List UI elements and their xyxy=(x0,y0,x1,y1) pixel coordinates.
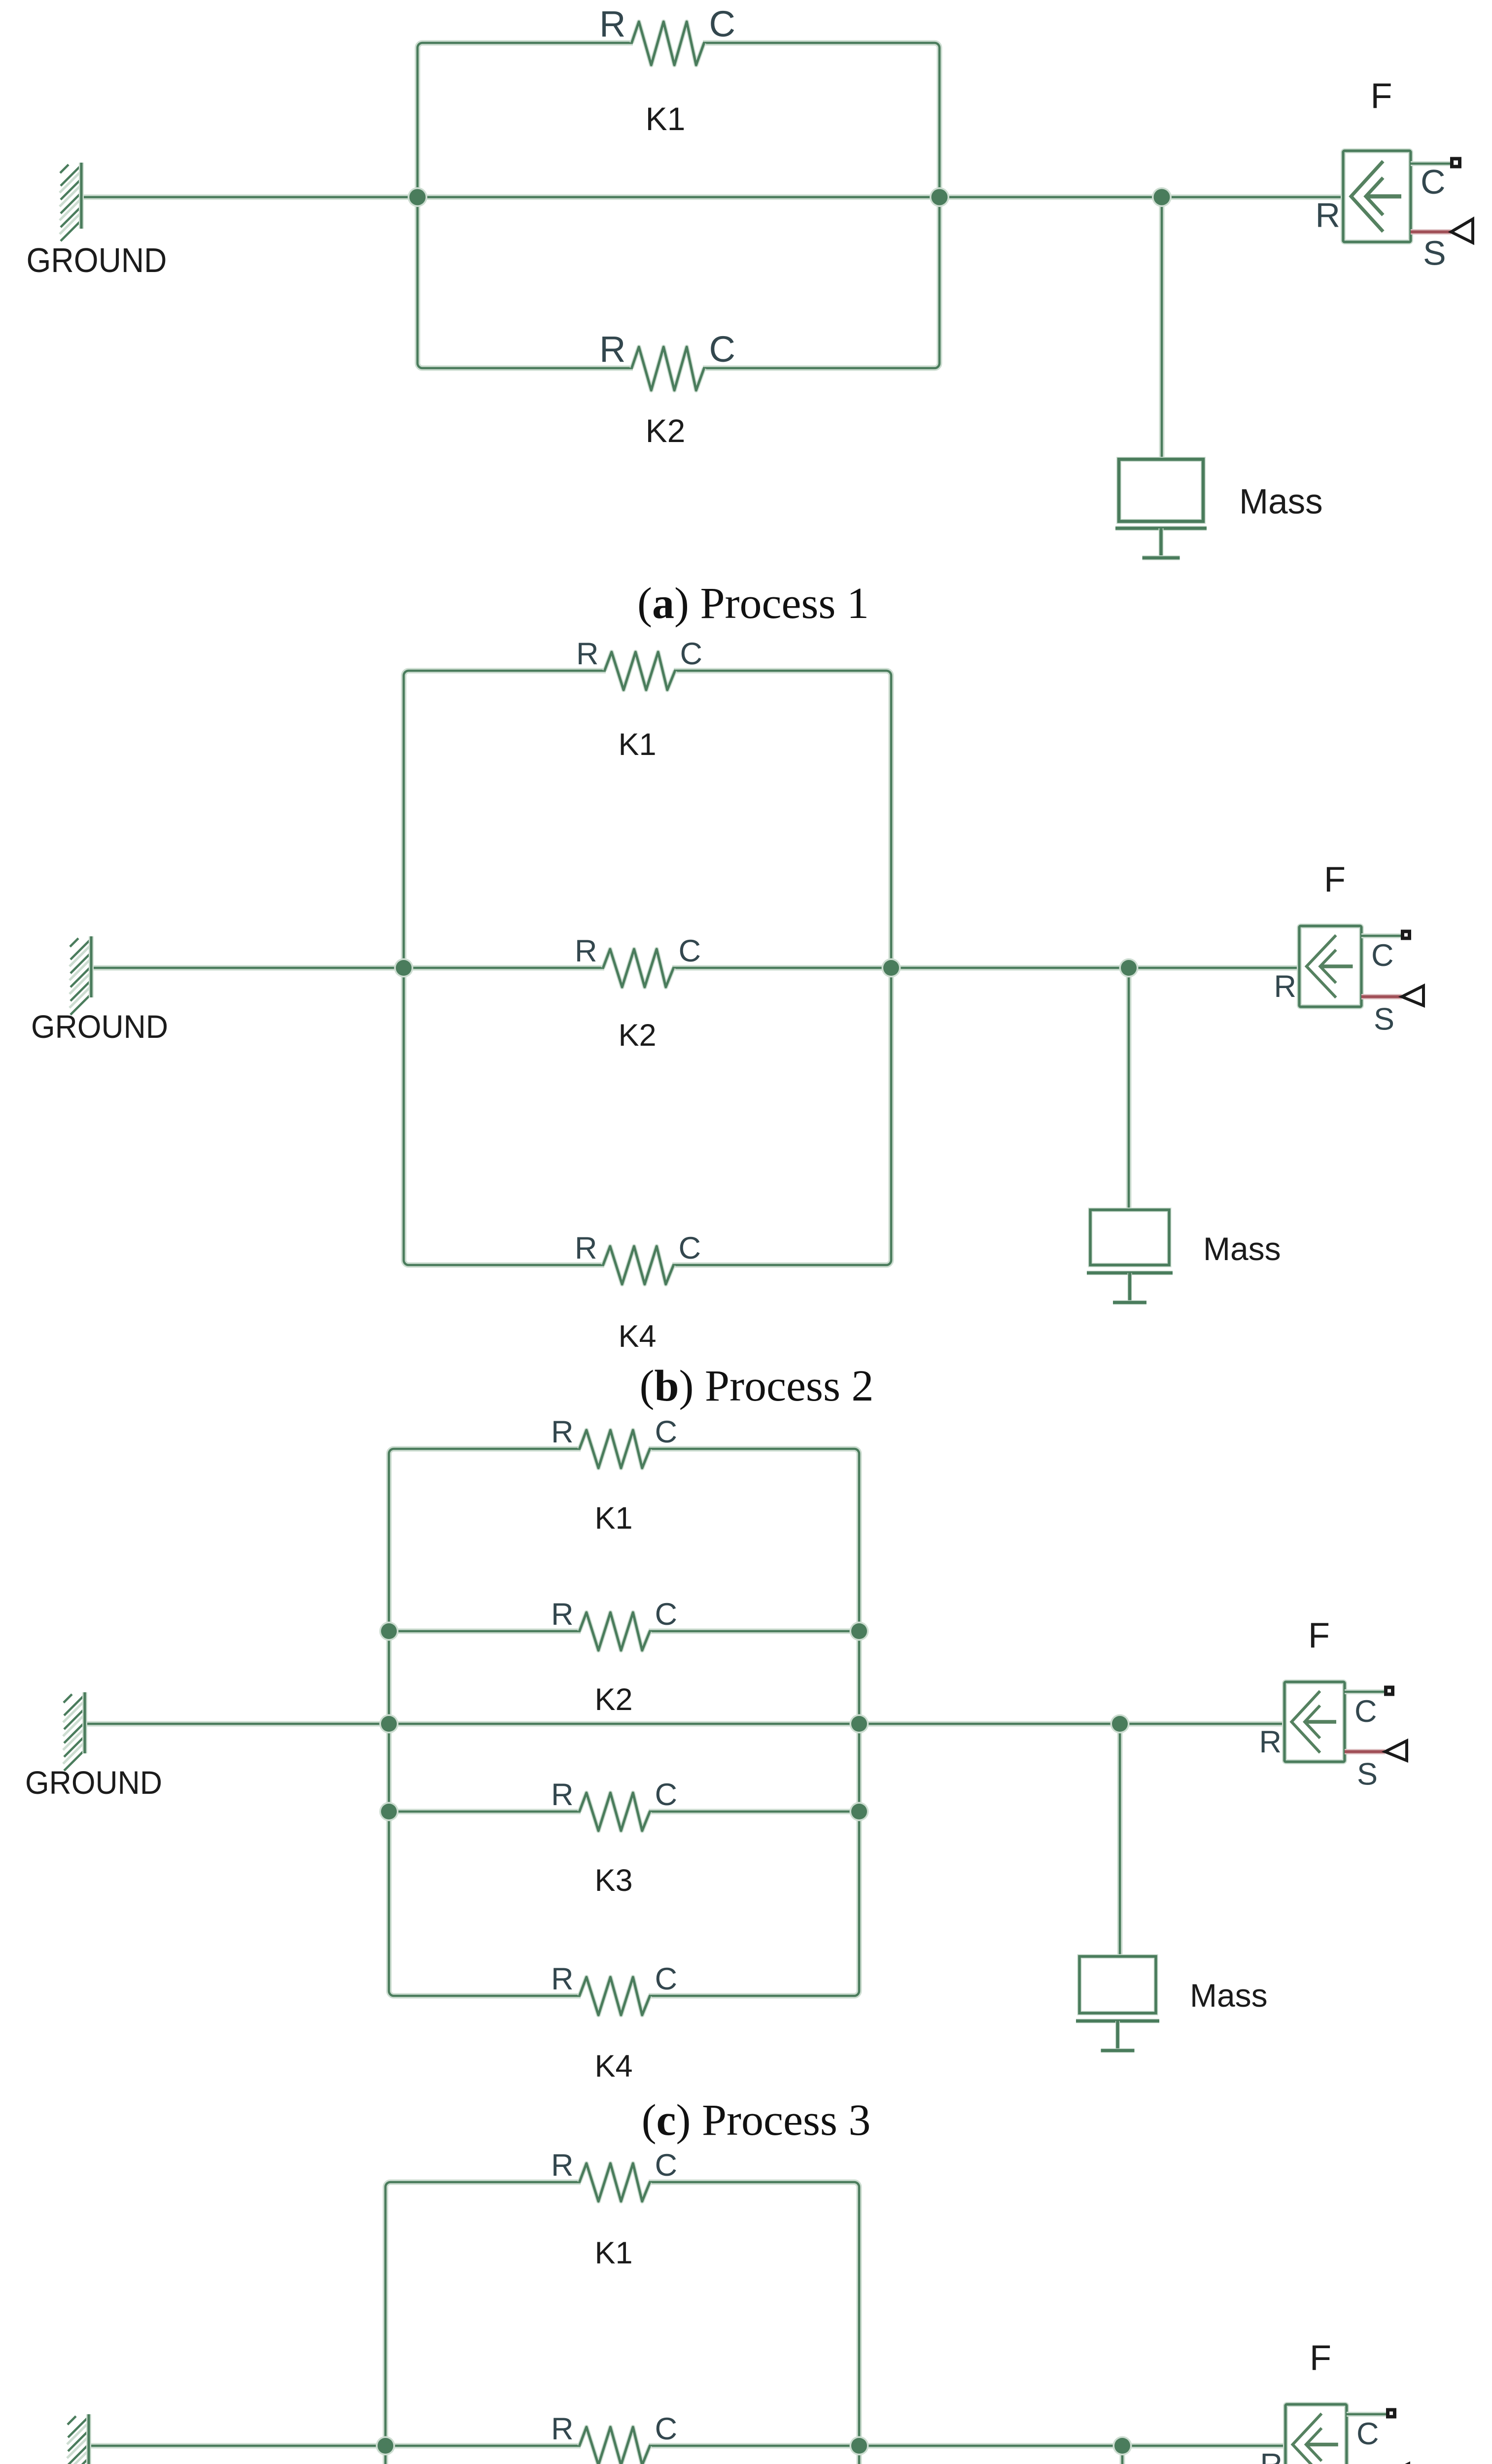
svg-text:R: R xyxy=(575,934,597,968)
svg-text:GROUND: GROUND xyxy=(25,1764,162,1801)
svg-text:C: C xyxy=(679,934,701,968)
svg-text:R: R xyxy=(551,1962,574,1996)
svg-text:(b) Process 2: (b) Process 2 xyxy=(640,1362,874,1410)
svg-text:C: C xyxy=(1354,1694,1377,1729)
svg-text:GROUND: GROUND xyxy=(31,1008,168,1045)
svg-text:(c) Process 3: (c) Process 3 xyxy=(642,2096,871,2145)
svg-text:R: R xyxy=(1315,196,1340,235)
svg-text:C: C xyxy=(1421,163,1446,201)
svg-text:R: R xyxy=(1260,2448,1283,2464)
svg-text:C: C xyxy=(655,1597,678,1632)
svg-text:C: C xyxy=(655,1962,678,1996)
svg-text:R: R xyxy=(551,1415,574,1449)
svg-text:F: F xyxy=(1308,1616,1330,1655)
svg-text:S: S xyxy=(1423,234,1446,273)
svg-text:F: F xyxy=(1310,2338,1331,2378)
svg-text:K1: K1 xyxy=(594,1501,632,1536)
svg-text:R: R xyxy=(551,2412,574,2446)
svg-text:K2: K2 xyxy=(646,412,686,449)
svg-text:K4: K4 xyxy=(618,1319,656,1354)
svg-text:R: R xyxy=(551,2148,574,2183)
svg-text:C: C xyxy=(655,1778,678,1812)
svg-text:K3: K3 xyxy=(594,1863,632,1898)
svg-text:Mass: Mass xyxy=(1239,482,1323,521)
svg-text:C: C xyxy=(709,3,735,44)
svg-text:Mass: Mass xyxy=(1190,1977,1268,2014)
svg-text:C: C xyxy=(1371,938,1394,973)
svg-text:C: C xyxy=(680,637,703,671)
svg-text:R: R xyxy=(599,3,625,44)
svg-text:(a) Process 1: (a) Process 1 xyxy=(637,579,869,628)
svg-text:C: C xyxy=(655,2148,678,2183)
svg-text:F: F xyxy=(1371,76,1392,116)
svg-text:S: S xyxy=(1374,1002,1394,1037)
svg-text:R: R xyxy=(1259,1725,1282,1759)
svg-text:K4: K4 xyxy=(594,2049,632,2084)
svg-text:R: R xyxy=(575,1231,597,1266)
svg-text:Mass: Mass xyxy=(1203,1231,1281,1267)
svg-text:K2: K2 xyxy=(618,1018,656,1053)
svg-text:C: C xyxy=(655,1415,678,1449)
svg-text:R: R xyxy=(1274,969,1297,1004)
svg-text:R: R xyxy=(576,637,599,671)
svg-text:R: R xyxy=(599,329,625,370)
svg-text:R: R xyxy=(551,1597,574,1632)
svg-text:R: R xyxy=(551,1778,574,1812)
svg-text:C: C xyxy=(709,329,735,370)
svg-text:K1: K1 xyxy=(618,727,656,762)
svg-text:C: C xyxy=(655,2412,678,2446)
svg-text:K1: K1 xyxy=(646,101,686,137)
svg-text:GROUND: GROUND xyxy=(27,241,167,279)
svg-text:C: C xyxy=(1356,2417,1379,2451)
svg-text:K2: K2 xyxy=(594,1682,632,1717)
svg-text:F: F xyxy=(1324,860,1346,899)
svg-text:K1: K1 xyxy=(594,2236,632,2270)
svg-text:C: C xyxy=(679,1231,701,1266)
svg-text:S: S xyxy=(1357,1757,1378,1792)
